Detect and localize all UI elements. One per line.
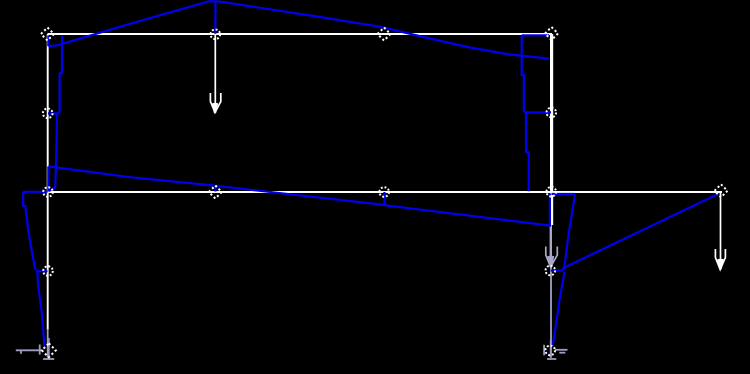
node connector at floor-left node horizontal: [23, 191, 47, 193]
deformed lower-right column lower member (blue): [553, 272, 565, 346]
node diamond roof-left: [41, 28, 54, 41]
node connector at roof mid node: [214, 2, 216, 34]
member floor beam with cantilever (white, y=192): [48, 191, 723, 193]
deformed roof beam right member (blue): [218, 1, 549, 58]
member left column lower grey part: [47, 329, 49, 358]
deformed lower-left column upper member (blue): [23, 192, 35, 270]
deformed roof beam left member (blue): [48, 1, 218, 46]
node circle right column upper mid: [547, 108, 557, 118]
node diamond roof-right: [545, 27, 558, 40]
load arrow P3 at cantilever tip (white): [715, 192, 725, 270]
deformed upper-left column member (blue): [60, 36, 62, 113]
node diamond cantilever tip: [715, 184, 728, 197]
node circle floor-384: [379, 187, 389, 197]
node connector at floor-right node: [549, 194, 551, 226]
node connector at left mid-column: [48, 112, 60, 114]
node diamond roof-384: [378, 28, 391, 41]
node connector at roof-right node horizontal: [522, 34, 549, 36]
deformed upper-right column member (blue): [522, 35, 524, 111]
node circle left column lower mid: [43, 266, 53, 276]
node circle roof-mid: [211, 30, 221, 40]
node connector at roof-left node: [47, 36, 49, 47]
node circle floor-right: [547, 187, 557, 197]
deformed floor beam member 2 (blue): [215, 186, 384, 205]
member left column (white, x=47.7): [47, 34, 49, 330]
node connector at floor-left node: [47, 166, 49, 191]
node connector at right column lower mid node: [551, 270, 563, 272]
member right column lower grey part: [550, 225, 552, 358]
node diamond support-left: [42, 343, 56, 357]
node circle right column lower mid: [546, 266, 556, 276]
node connector at floor node 384: [383, 192, 385, 205]
node connector at floor node 215: [214, 186, 216, 192]
load arrow P1 at roof mid (white): [210, 34, 220, 113]
support pin left (grey): [16, 338, 54, 359]
deformed lower-left column lower member (blue): [37, 271, 44, 346]
support pin right (grey): [544, 340, 567, 359]
node connector at right mid-column: [524, 111, 551, 113]
deformed floor beam member 3 (blue): [384, 205, 551, 226]
node connector at floor-right node horizontal: [552, 193, 576, 195]
node circle floor-left: [43, 187, 53, 197]
member roof beam (white, y=34): [48, 33, 553, 35]
deformed cantilever member diagonal (blue): [562, 194, 718, 269]
reaction arrow R2 at right column (grey): [546, 225, 558, 267]
deformed floor beam member 1 (blue): [48, 166, 215, 185]
node circle left column upper mid: [43, 109, 53, 119]
node diamond floor-215: [209, 186, 222, 199]
member right column upper (white, x=551.3): [550, 34, 553, 225]
node connector at left column lower mid node: [36, 270, 48, 272]
deformed lower-right column upper member (blue): [563, 194, 575, 270]
deformed upper-right column lower member (blue): [526, 113, 529, 191]
deformed upper-left column lower member (blue): [49, 114, 57, 192]
node circle support-right: [545, 346, 555, 356]
